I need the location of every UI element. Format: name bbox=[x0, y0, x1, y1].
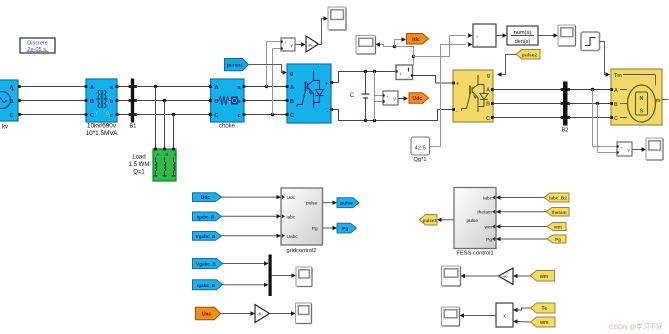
IGBT converter grid-side (cyan) bbox=[286, 64, 331, 123]
wire phase B conv->B2 bbox=[493, 103, 562, 105]
node vtap bottom bbox=[373, 119, 376, 122]
svg-text:m: m bbox=[656, 98, 661, 104]
label of load bbox=[129, 155, 150, 176]
svg-text:kv: kv bbox=[2, 125, 8, 131]
wire phase b choke->converter bbox=[245, 100, 287, 102]
svg-text:A: A bbox=[90, 85, 94, 91]
svg-text:42.5: 42.5 bbox=[415, 145, 426, 151]
PMSM machine block (yellow) bbox=[610, 69, 662, 125]
From tag Pg (yellow) bbox=[547, 235, 566, 243]
svg-text:Iabc_B2: Iabc_B2 bbox=[549, 196, 567, 201]
From tag Udc (blue) bbox=[193, 193, 222, 202]
svg-text:pulse: pulse bbox=[306, 201, 318, 207]
svg-text:B: B bbox=[165, 152, 168, 157]
scope Idc (flipped) bbox=[356, 36, 376, 55]
svg-text:-K-: -K- bbox=[308, 42, 315, 47]
From tag wm (yellow) bbox=[547, 223, 566, 231]
wire wm -> product bbox=[518, 321, 531, 324]
wire phase c xfmr->B1 bbox=[117, 114, 130, 116]
svg-text:B: B bbox=[90, 99, 94, 105]
bus bar B1 bbox=[129, 79, 137, 130]
svg-text:FESS control1: FESS control1 bbox=[456, 251, 493, 257]
current measurement block Idc bbox=[396, 65, 414, 80]
From tag pulse2 (yellow) bbox=[516, 50, 540, 60]
svg-text:Iabc: Iabc bbox=[483, 196, 493, 202]
node machine vtap B bbox=[596, 102, 599, 105]
Goto tag pulse (blue) bbox=[337, 198, 359, 208]
svg-text:wm: wm bbox=[485, 226, 492, 231]
node cap top bbox=[364, 70, 367, 73]
three-phase load block "Load 1.5 WM Q=1" bbox=[153, 148, 177, 181]
wire phase C B1->choke bbox=[136, 114, 210, 116]
svg-text:C: C bbox=[486, 116, 490, 122]
wire mux -> scope bbox=[272, 275, 292, 277]
svg-text:gridcontrol2: gridcontrol2 bbox=[286, 248, 316, 254]
svg-text:c: c bbox=[237, 113, 240, 119]
wire phase B B2->machine bbox=[569, 103, 610, 105]
wire gain -> scope bbox=[270, 313, 292, 315]
wire Vgabc_B -> mux bbox=[223, 263, 265, 265]
wire phase C source->transformer bbox=[21, 114, 85, 116]
subsystem FESS control1 bbox=[454, 188, 496, 249]
svg-text:A: A bbox=[156, 152, 159, 157]
svg-text:Igabc_B: Igabc_B bbox=[197, 214, 216, 219]
node vmeas tap phase A bbox=[265, 85, 268, 88]
svg-text:B: B bbox=[614, 102, 618, 108]
svg-text:den(s): den(s) bbox=[515, 39, 531, 45]
wire DC+ rail bbox=[331, 72, 395, 83]
node machine vtap A bbox=[591, 88, 594, 91]
wire gain -> scope bbox=[319, 19, 325, 45]
node vmeas tap phase C bbox=[271, 113, 274, 116]
From tag Iabc_B2 (yellow) bbox=[544, 193, 569, 202]
wire into Udc vmeas - bbox=[375, 101, 383, 103]
svg-text:Udc: Udc bbox=[201, 195, 211, 201]
wire vmeas -> scope bbox=[632, 149, 642, 151]
svg-text:thetam: thetam bbox=[477, 210, 492, 216]
svg-text:iabc: iabc bbox=[287, 214, 296, 220]
svg-text:pulse: pulse bbox=[340, 201, 353, 207]
wire thetam -> FESS bbox=[501, 211, 547, 213]
scope V/I grid bbox=[296, 267, 312, 287]
wire wm -> gain bbox=[518, 275, 531, 277]
svg-text:10*1.5MVA: 10*1.5MVA bbox=[86, 130, 119, 137]
wire transfer fcn -> scope bbox=[538, 35, 554, 37]
svg-text:Pg: Pg bbox=[555, 237, 561, 242]
svg-text:Vgabc_B: Vgabc_B bbox=[196, 234, 216, 239]
svg-text:puren1: puren1 bbox=[227, 63, 243, 69]
From tag Vgabc_B (blue) bbox=[193, 232, 222, 241]
svg-text:Y: Y bbox=[95, 111, 98, 116]
svg-text:10kv/690v: 10kv/690v bbox=[87, 123, 117, 130]
node load tap B bbox=[163, 99, 166, 102]
svg-text:g: g bbox=[487, 73, 490, 79]
wire product -> scope bbox=[464, 315, 496, 317]
wire Uac -> gain bbox=[221, 313, 251, 315]
wire phase A conv->B2 bbox=[493, 89, 562, 91]
From tag Te (yellow) bbox=[531, 303, 556, 313]
product block (Idc x 42.5) bbox=[473, 24, 496, 47]
svg-text:Udc: Udc bbox=[287, 195, 296, 201]
svg-text:S: S bbox=[640, 109, 644, 115]
wire phase b xfmr->B1 bbox=[117, 100, 130, 102]
svg-text:Udc: Udc bbox=[412, 96, 422, 102]
svg-text:B2: B2 bbox=[562, 128, 569, 134]
svg-text:Te: Te bbox=[542, 306, 548, 312]
svg-text:Uabc: Uabc bbox=[287, 234, 299, 240]
Goto tag Pg (blue) bbox=[337, 223, 357, 233]
wire FESS pulse -> pulse2 goto bbox=[442, 219, 455, 221]
node load tap C bbox=[172, 113, 175, 116]
transformer 10kv/690v 10*1.5MVA bbox=[85, 79, 119, 137]
wire Idc signal up bbox=[413, 57, 415, 66]
wire into Udc vmeas + bbox=[375, 95, 383, 97]
node cap bottom bbox=[364, 119, 367, 122]
From tag Vgabc_B row2 (blue) bbox=[193, 259, 223, 269]
svg-text:C: C bbox=[215, 113, 219, 119]
svg-text:+: + bbox=[456, 82, 459, 88]
svg-text:-K-: -K- bbox=[503, 274, 509, 279]
From tag puren1 bbox=[225, 59, 249, 71]
wire pulse2 -> converter g bbox=[501, 55, 516, 75]
svg-text:+: + bbox=[325, 82, 328, 88]
svg-text:Tm: Tm bbox=[614, 73, 622, 79]
wire phase A B1->choke bbox=[136, 86, 210, 88]
scope machine voltage bbox=[646, 138, 663, 160]
svg-text:Pg: Pg bbox=[486, 237, 492, 243]
wire gain -> scope wm bbox=[465, 275, 499, 277]
scope wm bbox=[442, 266, 461, 286]
From tag wm row (yellow) bbox=[531, 271, 555, 282]
From tag Igabc_B row2 (blue) bbox=[193, 280, 223, 290]
wire Pg -> FESS bbox=[501, 238, 548, 240]
node Idc branch bbox=[412, 55, 415, 58]
wire vtapB into vmeas bbox=[598, 152, 617, 154]
wire Udc -> gridcontrol2 bbox=[222, 196, 277, 198]
svg-text:pulse2: pulse2 bbox=[522, 52, 538, 58]
svg-text:C: C bbox=[350, 92, 355, 99]
svg-text:Pg: Pg bbox=[312, 226, 318, 232]
svg-text:num(s): num(s) bbox=[514, 30, 532, 36]
choke (three-phase series RLC branch) bbox=[209, 79, 245, 130]
svg-text:wm: wm bbox=[539, 274, 549, 280]
wire vmeas -> Udc tag bbox=[398, 98, 404, 100]
product block Te*wm (flipped) bbox=[496, 303, 513, 327]
svg-text:C: C bbox=[290, 113, 294, 119]
svg-text:A: A bbox=[486, 88, 490, 94]
svg-text:B: B bbox=[215, 99, 219, 105]
svg-text:-K-: -K- bbox=[257, 312, 264, 317]
scope Uac bbox=[296, 303, 312, 324]
wire product -> transfer fcn bbox=[496, 35, 503, 37]
wire phase B source->transformer bbox=[21, 100, 85, 102]
wire DC+ rail after current measurement bbox=[413, 76, 453, 84]
mux bbox=[269, 255, 272, 297]
svg-text:B: B bbox=[290, 99, 294, 105]
Goto tag pulse2 (yellow) bbox=[420, 215, 438, 226]
wire phase a choke->converter bbox=[245, 86, 287, 88]
svg-text:Idc: Idc bbox=[412, 37, 420, 43]
svg-text:thetam: thetam bbox=[551, 210, 566, 215]
three-phase voltage source (10kv), cut off at left edge bbox=[0, 80, 21, 131]
gain (flipped) wm scale bbox=[499, 268, 514, 285]
wire machine m output bbox=[662, 99, 668, 101]
gain -K- bottom bbox=[255, 305, 270, 323]
wire phase A source->transformer bbox=[21, 86, 85, 88]
wire Igabc_B -> mux bbox=[223, 284, 265, 286]
svg-text:C: C bbox=[174, 152, 177, 157]
svg-text:C: C bbox=[614, 116, 618, 122]
subsystem gridcontrol2 bbox=[281, 188, 323, 245]
svg-text:wm: wm bbox=[539, 320, 549, 326]
wire phase C conv->B2 bbox=[493, 117, 562, 119]
voltage measurement block Udc bbox=[383, 91, 399, 105]
IGBT converter machine-side (yellow) bbox=[452, 70, 494, 122]
svg-text:C: C bbox=[10, 113, 14, 119]
step block bbox=[581, 32, 600, 51]
svg-text:choke: choke bbox=[219, 124, 236, 130]
svg-text:pulse: pulse bbox=[467, 218, 479, 224]
wire phase A B2->machine bbox=[569, 89, 610, 91]
wire DC- rail bbox=[331, 110, 452, 121]
node load tap A bbox=[154, 85, 157, 88]
wire vtapA into vmeas bbox=[593, 146, 617, 148]
From tag Uac (orange) bbox=[196, 307, 221, 320]
svg-text:N: N bbox=[640, 96, 644, 102]
constant block 42.5 bbox=[411, 137, 430, 155]
svg-text:A: A bbox=[614, 88, 618, 94]
svg-text:Igabc_B: Igabc_B bbox=[197, 283, 216, 288]
svg-text:A: A bbox=[290, 85, 294, 91]
scope (power) bbox=[558, 25, 576, 46]
wire Idc to product block bbox=[414, 36, 467, 57]
wire Iabc_B2 -> FESS bbox=[501, 197, 545, 199]
wire puren1 -> converter g bbox=[249, 65, 284, 73]
wire phase a xfmr->B1 bbox=[117, 86, 130, 88]
scope Pe bbox=[442, 307, 460, 326]
capacitor C bbox=[362, 72, 370, 121]
svg-text:A: A bbox=[215, 85, 219, 91]
svg-text:pulse2: pulse2 bbox=[423, 218, 437, 223]
wire Vgabc_B -> gridcontrol2 bbox=[222, 235, 277, 237]
wire phase C B2->machine bbox=[569, 117, 610, 119]
voltage measurement block (grid Uac) bbox=[281, 38, 296, 52]
voltage measurement machine terminals bbox=[617, 142, 633, 157]
svg-text:Discrete: Discrete bbox=[27, 41, 48, 47]
svg-text:Vgabc_B: Vgabc_B bbox=[196, 262, 216, 267]
transfer function num(s)/den(s) bbox=[507, 26, 538, 45]
wire vmeas -> gain bbox=[295, 44, 302, 46]
wire 42.5 -> product bbox=[430, 45, 467, 147]
gain -K- (Uac scale) bbox=[306, 36, 319, 52]
wire gridcontrol2 Pg -> tag bbox=[323, 227, 333, 229]
wire into voltage measurement + bbox=[267, 41, 281, 43]
wire into voltage measurement - bbox=[273, 48, 281, 50]
node vtap top bbox=[373, 70, 376, 73]
scope (grid voltage) bbox=[328, 7, 346, 30]
svg-text:c: c bbox=[110, 113, 113, 119]
powergui block "Discrete 2e-05 s." bbox=[20, 38, 55, 53]
wire Idc to scope row bbox=[380, 45, 414, 57]
svg-text:CSDN @学习不好: CSDN @学习不好 bbox=[609, 322, 663, 331]
svg-text:C: C bbox=[90, 113, 94, 119]
node Idc scope branch bbox=[393, 45, 396, 48]
wire gridcontrol2 pulse -> tag bbox=[323, 202, 333, 204]
wire Idc to tag bbox=[395, 40, 402, 47]
wire Igabc_B -> gridcontrol2 bbox=[222, 215, 277, 217]
From tag thetam (yellow) bbox=[546, 208, 569, 217]
From tag wm row3 (yellow) bbox=[531, 317, 556, 327]
svg-text:1.5 WM: 1.5 WM bbox=[129, 162, 150, 168]
svg-text:Pg: Pg bbox=[342, 226, 348, 232]
svg-text:Load: Load bbox=[132, 155, 145, 161]
wire Te -> product bbox=[518, 308, 531, 310]
svg-text:B: B bbox=[10, 99, 14, 105]
bus bar B2 bbox=[561, 82, 570, 134]
wire phase c choke->converter bbox=[245, 114, 287, 116]
wire vtap vertical bbox=[374, 72, 376, 121]
svg-text:B1: B1 bbox=[130, 124, 137, 130]
wire wm -> FESS bbox=[501, 226, 548, 228]
wire step -> machine Tm bbox=[600, 42, 607, 75]
svg-text:Qg*1: Qg*1 bbox=[413, 157, 426, 163]
wire phase B B1->choke bbox=[136, 100, 210, 102]
svg-text:x: x bbox=[476, 34, 478, 39]
Goto tag Udc (orange) bbox=[409, 93, 429, 104]
svg-text:Uac: Uac bbox=[202, 312, 212, 318]
svg-text:A: A bbox=[10, 85, 14, 91]
svg-text:wm: wm bbox=[553, 225, 562, 230]
svg-text:Q=1: Q=1 bbox=[133, 170, 145, 176]
svg-text:g: g bbox=[290, 71, 293, 77]
svg-text:B: B bbox=[486, 102, 490, 108]
svg-text:i: i bbox=[400, 72, 401, 77]
From tag Igabc_B (blue) bbox=[193, 212, 222, 221]
Goto tag Idc (orange) bbox=[407, 34, 429, 45]
